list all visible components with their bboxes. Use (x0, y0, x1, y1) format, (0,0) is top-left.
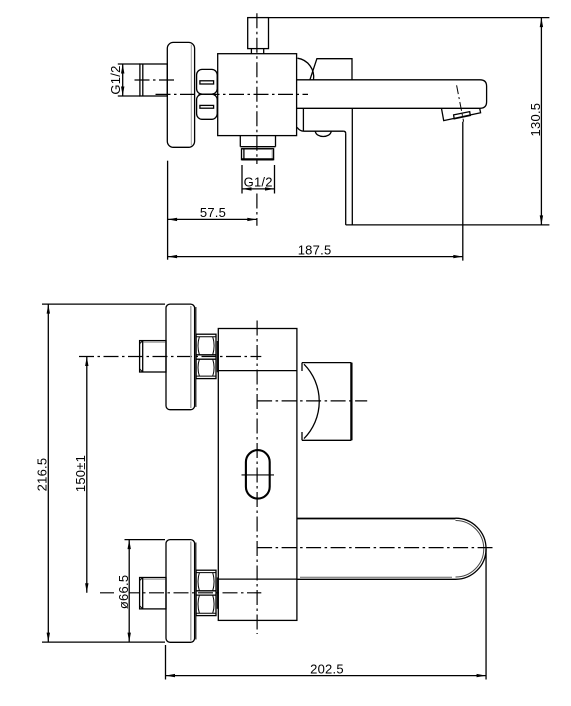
aerator under spout end (side view) (442, 108, 481, 120)
mixer body block (side view) (218, 54, 297, 136)
svg-text:187.5: 187.5 (298, 242, 332, 257)
body seam lower (top view) (218, 578, 297, 580)
spout (side view) (297, 80, 487, 109)
spout centerline (top view) (257, 547, 492, 549)
svg-text:G1/2: G1/2 (108, 65, 123, 94)
vertical centerline of body (top view) (256, 321, 258, 635)
vertical centerline through body and knob (side view) (256, 13, 258, 226)
top escutcheon flange (top view) (166, 304, 196, 410)
handle (top view) (302, 363, 351, 441)
hex connection nut (side view) (197, 69, 218, 119)
bottom hex connection nut (top view) (196, 570, 217, 615)
dimension G1/2 (bottom outlet) (242, 165, 275, 194)
dimension 216.5 (35, 304, 165, 642)
svg-text:202.5: 202.5 (310, 661, 344, 676)
horizontal centerline through body (side view) (156, 93, 309, 95)
top wall inlet pipe G1/2 (top view) (140, 341, 166, 372)
spout holder piece below spout (side view) (297, 108, 346, 136)
handle centerline (top view) (257, 400, 367, 402)
mixer body (top view) (218, 329, 297, 621)
svg-text:216.5: 216.5 (35, 458, 50, 492)
centerline of wall inlet (side view) (135, 79, 177, 81)
bottom wall inlet pipe G1/2 (top view) (140, 578, 166, 609)
spout (top view) (297, 518, 486, 579)
dimension 130.5 (269, 18, 550, 225)
dimension 202.5 (166, 549, 487, 680)
body seam upper (top view) (218, 370, 297, 372)
aerator tilted centerline (side view) (457, 85, 464, 121)
shower outlet neck below body (side view) (240, 136, 275, 149)
top hex connection nut (top view) (196, 334, 217, 378)
centerline of top wall inlet (top view) (79, 356, 261, 358)
svg-text:57.5: 57.5 (200, 205, 226, 220)
handle lever shaft extending down (side view) (346, 108, 353, 225)
svg-text:150±1: 150±1 (73, 455, 88, 492)
shower outlet threaded end G1/2 (side view) (242, 149, 274, 160)
dimension 57.5 (168, 161, 257, 260)
handle lever top cap trapezoid (side view) (310, 59, 352, 80)
dimension 187.5 (168, 122, 463, 261)
dimension G1/2 (left inlet) (108, 64, 140, 96)
svg-text:ø66.5: ø66.5 (116, 575, 131, 610)
bottom wall inlet centerline (top view) (100, 592, 261, 594)
svg-text:G1/2: G1/2 (244, 174, 273, 189)
handle lever curved front edge (side view) (298, 58, 314, 80)
escutcheon wall flange (side view) (167, 42, 194, 147)
diverter knob on top of body (side view) (248, 18, 269, 54)
handle bottom edge / 130.5 bottom extension line (346, 224, 550, 226)
oval diverter slot on body (top view) (242, 450, 275, 499)
wall inlet pipe G1/2 (side view) (140, 64, 167, 96)
bottom escutcheon flange (top view) (166, 540, 196, 643)
dimension phi 66.5 (114, 540, 165, 643)
dimension 150±1 (73, 357, 88, 593)
svg-text:130.5: 130.5 (528, 103, 543, 137)
